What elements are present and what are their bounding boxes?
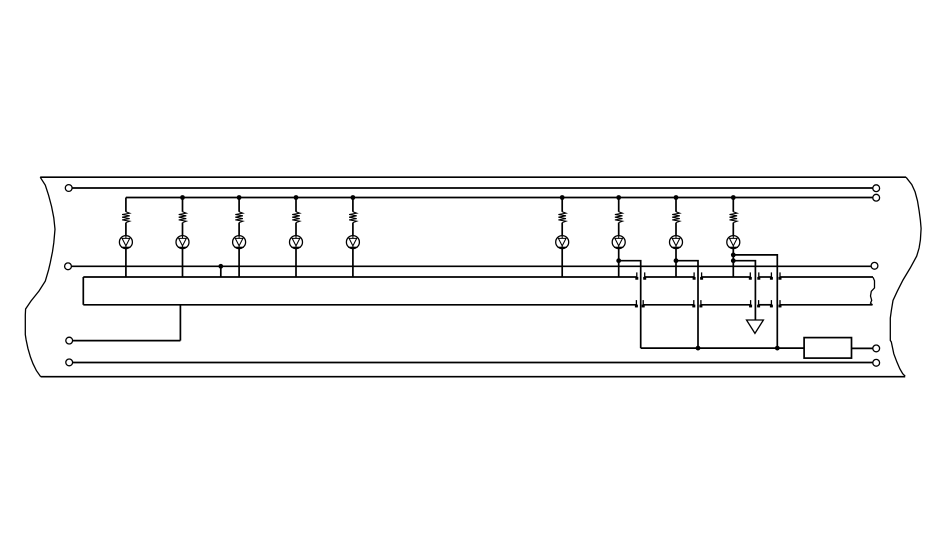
bus bar: bottom edge hook terminal at x=758.6 — [758, 300, 760, 307]
wire: cell 7 drop from resistor bus — [618, 198, 620, 212]
bus bar: bottom edge hook terminal at x=700.9 — [700, 300, 702, 307]
LED D8 (diode in circle) — [670, 235, 683, 248]
cable-sheet outline: right torn break edge — [890, 177, 921, 376]
terminal T6 right (resistor bus) — [873, 194, 880, 201]
wire: jog from D7 drop down to load rail — [619, 261, 641, 348]
wire: R8 to D8 — [675, 223, 677, 236]
wire: resistor bus rail — [126, 197, 873, 199]
bus bar: bottom edge segment 4 — [780, 304, 873, 306]
wire: D6 cathode down to bus bar — [561, 249, 563, 277]
bus bar: top edge segment 4 — [780, 276, 873, 278]
bus bar: top edge hook terminal at x=694.1 — [693, 272, 695, 279]
wire: D9 cathode down to bus bar — [732, 249, 734, 277]
bus bar: bottom edge hook terminal at x=771.4 — [770, 300, 772, 307]
bus bar: right torn break — [871, 277, 875, 305]
LED D2 (diode in circle) — [176, 235, 189, 248]
bus bar: top edge (main run) — [83, 276, 637, 278]
wire: bottom rail — [73, 362, 873, 364]
wire: return tap rail to T3 — [73, 340, 181, 342]
bus bar: top edge segment 3 — [759, 276, 772, 278]
ground symbol (open triangle) — [747, 320, 764, 333]
bus bar: left end edge — [82, 277, 84, 305]
resistor R7 — [615, 212, 623, 223]
wire: D7 cathode down to bus bar — [618, 249, 620, 277]
LED D5 (diode in circle) — [346, 235, 359, 248]
terminal T1 left (top rail) — [65, 185, 72, 192]
resistor R9 — [730, 212, 738, 223]
wire: cell 2 drop from resistor bus — [182, 198, 184, 212]
resistor R6 — [558, 212, 566, 223]
bus bar: top edge segment 2 — [702, 276, 751, 278]
terminal T9 right (bottom rail) — [873, 359, 880, 366]
resistor R5 — [349, 212, 357, 223]
bus bar: bottom edge hook terminal at x=750.6 — [750, 300, 752, 307]
wire: R3 to D3 — [238, 223, 240, 236]
resistor R1 — [122, 212, 130, 223]
terminal T2 left (mid rail) — [65, 263, 72, 270]
wire: cell 1 drop from resistor bus — [125, 198, 127, 212]
terminal T8 right (load) — [873, 345, 880, 352]
node: bus junction cell 2 — [180, 195, 185, 200]
wire: D1 cathode down to bus bar — [125, 249, 127, 277]
cable-sheet outline: bottom border — [41, 376, 906, 378]
wire: R5 to D5 — [352, 223, 354, 236]
node: load rail junction at x=777.3 — [775, 346, 780, 351]
wire: cell 4 drop from resistor bus — [295, 198, 297, 212]
resistor R10 (load, box style) — [804, 338, 851, 359]
LED D7 (diode in circle) — [612, 235, 625, 248]
wire: D8 cathode down to bus bar — [675, 249, 677, 277]
bus bar: top edge hook terminal at x=701.6 — [701, 272, 703, 279]
node: junction on D7 drop — [616, 258, 621, 263]
wire: D3 cathode down to bus bar — [238, 249, 240, 277]
wire: load resistor to terminal T8 — [852, 347, 873, 349]
bus bar: top edge hook terminal at x=780.0 — [779, 272, 781, 279]
cable-sheet outline: left torn break edge — [25, 177, 55, 377]
bus bar: bottom edge hook terminal at x=693.8 — [693, 300, 695, 307]
bus bar: bottom edge hook terminal at x=636.4 — [635, 300, 637, 307]
wire: R4 to D4 — [295, 223, 297, 236]
resistor R2 — [179, 212, 187, 223]
resistor R8 — [672, 212, 680, 223]
bus bar: top edge hook terminal at x=771.4 — [770, 272, 772, 279]
node: lower junction on D9 drop — [731, 258, 736, 263]
wire: top rail — [72, 187, 872, 189]
node: bus junction cell 8 — [674, 195, 679, 200]
wire: R7 to D7 — [618, 223, 620, 236]
bus bar: bottom edge segment 1 — [643, 304, 694, 306]
wire: load rail — [641, 347, 804, 349]
wire: upper jog from D9 drop down to load rail — [733, 255, 777, 348]
wire: cell 6 drop from resistor bus — [561, 198, 563, 212]
terminal T3 left (return tap) — [66, 337, 73, 344]
wire: D2 cathode down to bus bar — [182, 249, 184, 277]
bus bar: bottom edge segment 2 — [701, 304, 751, 306]
bus bar: bottom edge hook terminal at x=780.0 — [779, 300, 781, 307]
wire: R9 to D9 — [732, 223, 734, 236]
bus bar: top edge hook terminal at x=750.3 — [749, 272, 751, 279]
node: upper junction on D9 drop — [731, 253, 736, 258]
bus bar: bottom edge segment 3 — [759, 304, 772, 306]
terminal T7 right (mid rail) — [871, 262, 878, 269]
bus bar: top edge hook terminal at x=758.8 — [758, 272, 760, 279]
LED D4 (diode in circle) — [290, 235, 303, 248]
terminal T4 left (bottom rail) — [66, 359, 73, 366]
LED D6 (diode in circle) — [556, 235, 569, 248]
wire: R2 to D2 — [182, 223, 184, 236]
bus bar: bottom edge (main run) — [83, 304, 636, 306]
resistor R4 — [292, 212, 300, 223]
wire: return tap stub up to bus-bar bottom edge — [179, 305, 181, 341]
wire: R6 to D6 — [561, 223, 563, 236]
wire: cell 5 drop from resistor bus — [352, 198, 354, 212]
bus bar: top edge hook terminal at x=636.8 — [636, 272, 638, 279]
wire: jog from D8 drop down to load rail — [676, 261, 698, 348]
wire: lower jog from D9 drop down to ground — [733, 261, 755, 320]
node: bus junction cell 3 — [237, 195, 242, 200]
node: bus junction cell 9 — [731, 195, 736, 200]
wire: mid rail — [72, 265, 871, 267]
bus bar: top edge hook terminal at x=644.7 — [644, 272, 646, 279]
resistor R3 — [235, 212, 243, 223]
node: bus junction cell 7 — [616, 195, 621, 200]
bus bar: bottom edge hook terminal at x=643.2 — [642, 300, 644, 307]
wire: D5 cathode down to bus bar — [352, 249, 354, 277]
node: bus junction cell 6 — [560, 195, 565, 200]
node: bus junction cell 5 — [351, 195, 356, 200]
LED D9 (diode in circle) — [727, 235, 740, 248]
node: mid-rail tap junction — [218, 264, 223, 269]
LED D1 (diode in circle) — [119, 235, 132, 248]
wire: cell 3 drop from resistor bus — [238, 198, 240, 212]
node: junction load rail at x=698 — [696, 346, 701, 351]
LED D3 (diode in circle) — [233, 235, 246, 248]
wire: D4 cathode down to bus bar — [295, 249, 297, 277]
cable-sheet outline: top border — [40, 176, 906, 178]
terminal T5 right (top rail) — [873, 185, 880, 192]
node: junction on D8 drop — [674, 258, 679, 263]
bus bar: top edge segment 1 — [645, 276, 694, 278]
node: bus junction cell 4 — [294, 195, 299, 200]
wire: R1 to D1 — [125, 223, 127, 236]
wire: mid-rail tap stub to bus bar — [220, 266, 222, 277]
wire: cell 9 drop from resistor bus — [732, 198, 734, 212]
wire: cell 8 drop from resistor bus — [675, 198, 677, 212]
